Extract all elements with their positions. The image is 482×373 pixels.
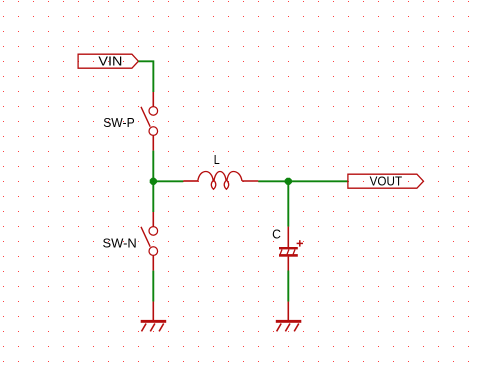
capacitor C: [279, 227, 303, 271]
wire junction A to SW-N: [152, 181, 154, 212]
wire capacitor to ground: [287, 271, 289, 302]
switch SW-N: [141, 212, 158, 271]
wire SW-P to junction A: [152, 151, 154, 182]
switch SW-P: [141, 92, 158, 151]
ground right: [276, 302, 302, 332]
wire VIN tip to corner and down to SW-P pin: [138, 61, 153, 92]
wire junction B down to capacitor: [287, 181, 289, 226]
svg-text:VIN: VIN: [98, 53, 122, 68]
svg-text:SW-P: SW-P: [103, 115, 135, 130]
flag VIN: [78, 54, 138, 68]
wire SW-N to ground: [152, 271, 154, 302]
junction B: [285, 178, 292, 185]
svg-text:SW-N: SW-N: [103, 236, 137, 251]
flag VOUT: [348, 174, 424, 188]
wire inductor to VOUT flag: [258, 180, 348, 182]
svg-text:L: L: [214, 152, 220, 167]
svg-text:VOUT: VOUT: [370, 174, 403, 189]
svg-text:C: C: [272, 227, 281, 242]
ground left: [141, 302, 167, 332]
inductor L: [183, 172, 258, 190]
wire junction A to inductor: [153, 180, 183, 182]
junction A: [150, 178, 157, 185]
